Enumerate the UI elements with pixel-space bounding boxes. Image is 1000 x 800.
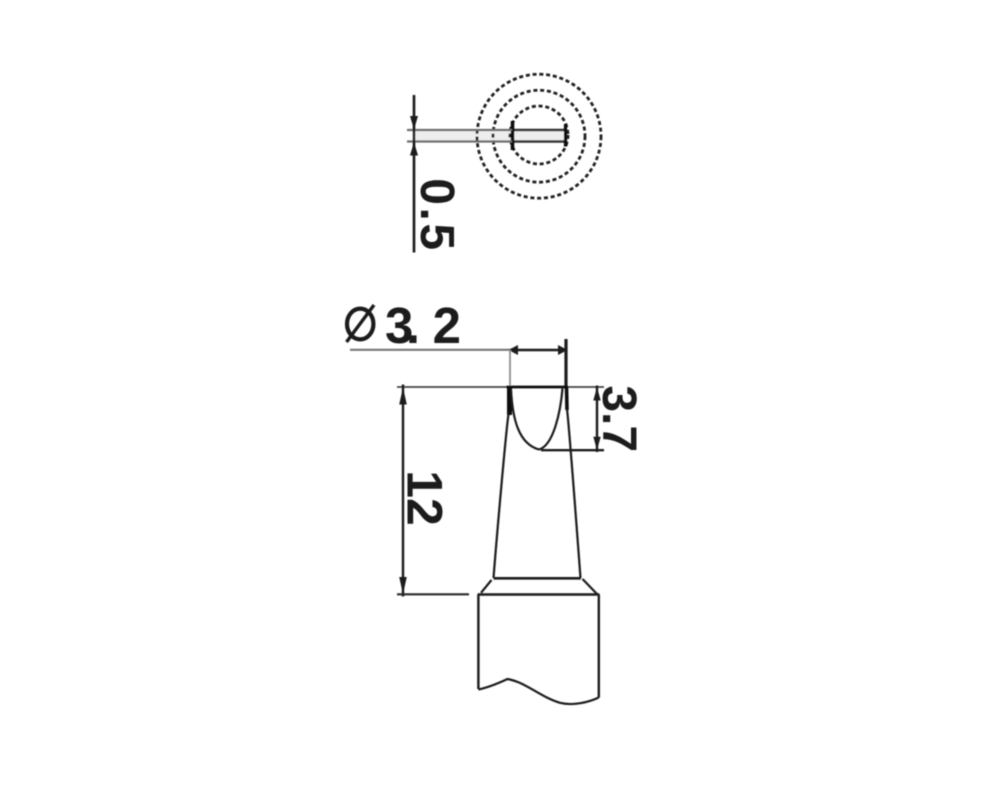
arrowhead right (points right) <box>558 345 568 355</box>
blade top edge <box>507 386 569 389</box>
svg-text:12: 12 <box>397 470 453 526</box>
arrowhead bottom (points down) <box>593 437 600 450</box>
blade slot top edge <box>512 129 566 132</box>
svg-text:3.7: 3.7 <box>592 385 645 452</box>
extension line, slot top to dim line <box>407 129 512 131</box>
extension line, slot bottom to dim line <box>407 140 512 142</box>
dimension line 0.5 (vertical) <box>413 95 416 253</box>
leader line from text to dim line <box>350 349 513 351</box>
chisel grind curve (U shape) <box>511 389 563 450</box>
taper right side <box>567 409 581 578</box>
arrowhead lower (points up to slot) <box>410 142 418 156</box>
dimension line 3.2 (horizontal) <box>510 349 566 351</box>
blade left edge <box>507 387 512 415</box>
bottom extension line for 12 <box>397 593 469 595</box>
blade right end bar <box>564 124 567 147</box>
blade left end bar <box>511 121 515 150</box>
svg-text:0.5: 0.5 <box>410 178 463 252</box>
dimension line 3.7 (vertical) <box>596 386 598 453</box>
flare left <box>481 580 492 593</box>
blade slot fill <box>412 131 565 141</box>
taper left side <box>494 414 509 578</box>
outer circle (sleeve OD), dashed <box>477 74 601 198</box>
top extension line across tip top <box>397 386 604 388</box>
dimension text Ø3.2 <box>347 309 373 340</box>
cone base line <box>494 577 581 580</box>
arrowhead top (points up) <box>593 387 600 400</box>
shank left edge <box>477 595 479 690</box>
bottom extension line for 3.7 <box>541 449 604 451</box>
arrowhead left (points left) <box>509 345 519 355</box>
shank right edge <box>598 595 600 698</box>
dimension line 12 (vertical) <box>402 385 404 597</box>
flare right <box>583 579 598 594</box>
inner circle (tip cone OD), dashed <box>510 106 568 164</box>
arrowhead top (points up) <box>399 388 407 405</box>
arrowhead bottom (points down) <box>399 577 407 594</box>
shank top edge <box>478 593 600 596</box>
middle circle, dashed <box>493 90 585 182</box>
blade slot bottom edge <box>512 140 566 143</box>
extension line left, dim to blade top <box>509 350 511 386</box>
extension line right, dim to blade top <box>564 339 567 386</box>
arrowhead upper (points down to slot) <box>410 116 418 130</box>
blade right edge <box>565 387 569 410</box>
wavy break line at shank bottom <box>478 679 598 704</box>
